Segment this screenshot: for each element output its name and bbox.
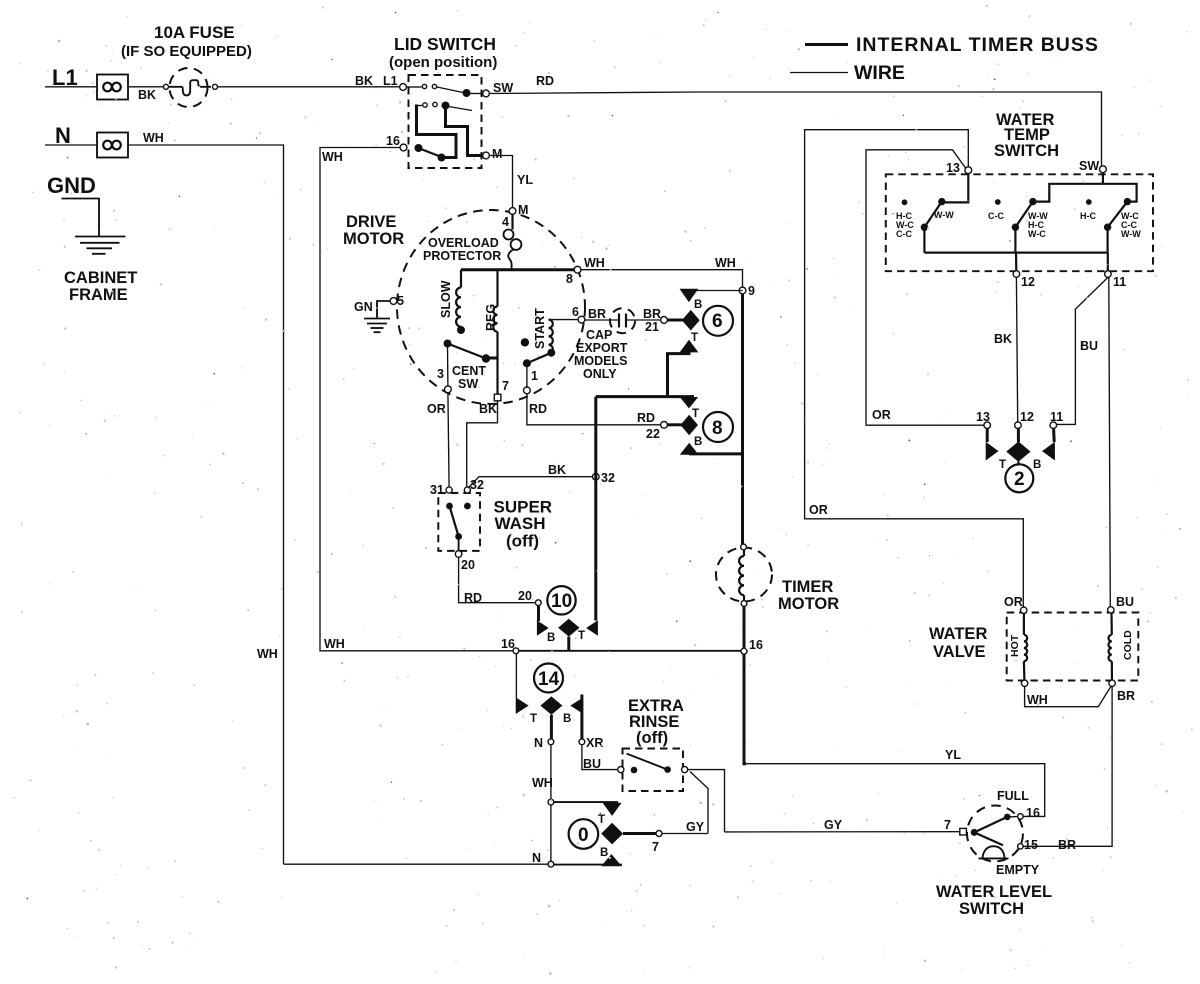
- connector P1 (L1): [97, 75, 128, 100]
- terminal 11 bottom: [1050, 422, 1057, 429]
- terminal 20: [455, 551, 462, 558]
- buss contact0 to terminal 7: [623, 832, 656, 835]
- terminal M drive motor: [509, 208, 516, 215]
- terminal 31: [446, 487, 452, 493]
- buss contact14 diamond to N: [550, 715, 553, 739]
- svg-text:8: 8: [566, 272, 573, 286]
- svg-text:WASH: WASH: [495, 514, 546, 533]
- svg-text:SW: SW: [458, 377, 478, 391]
- svg-text:20: 20: [461, 558, 475, 572]
- wire GY 7 to corner: [662, 833, 708, 835]
- wire N bottom run: [284, 863, 549, 865]
- wire BK 32 to net 32: [468, 477, 593, 488]
- terminal 16 water level: [1018, 814, 1024, 820]
- svg-text:B: B: [547, 632, 555, 644]
- wire net 16 horizontal: [519, 650, 742, 652]
- svg-text:(off): (off): [636, 729, 668, 747]
- wire OR water temp 13: [866, 150, 984, 425]
- wire junction to N bottom: [550, 805, 552, 861]
- svg-text:EXPORT: EXPORT: [576, 341, 628, 355]
- buss pivot3 to terminal 11: [1107, 253, 1109, 271]
- lid switch top row contacts: [407, 86, 422, 88]
- svg-text:HOT: HOT: [1009, 634, 1021, 657]
- svg-text:2: 2: [1014, 469, 1025, 490]
- svg-text:RD: RD: [637, 411, 655, 425]
- buss contact8 B to right bus: [689, 452, 743, 455]
- terminal 7: [494, 394, 501, 401]
- terminal SW lid switch: [483, 90, 490, 97]
- svg-text:6: 6: [572, 305, 579, 319]
- terminal 20 contact10: [535, 600, 541, 606]
- svg-text:BK: BK: [994, 332, 1012, 346]
- svg-text:B: B: [694, 436, 702, 448]
- legend internal timer buss: [805, 43, 848, 46]
- svg-text:WH: WH: [715, 256, 736, 270]
- junction terminal: [548, 799, 554, 805]
- svg-text:4: 4: [502, 215, 509, 229]
- wire junction to contact 0 T: [554, 801, 618, 803]
- lid switch middle row contacts: [417, 105, 423, 107]
- wire BK 12 down: [1016, 277, 1017, 422]
- svg-text:(open position): (open position): [389, 54, 497, 71]
- buss 22 to contact 8: [668, 423, 682, 426]
- svg-text:12: 12: [1021, 275, 1035, 289]
- lid switch bottom row blade: [415, 144, 423, 152]
- svg-text:WH: WH: [322, 150, 343, 164]
- wire YL buss to water level: [746, 764, 1044, 817]
- svg-text:7: 7: [652, 840, 659, 854]
- svg-text:INTERNAL TIMER BUSS: INTERNAL TIMER BUSS: [856, 34, 1099, 56]
- svg-text:XR: XR: [586, 736, 603, 750]
- svg-text:BR: BR: [588, 307, 606, 321]
- buss 13 into switch: [945, 174, 968, 203]
- svg-text:WATER LEVEL: WATER LEVEL: [936, 883, 1052, 901]
- terminal 9: [739, 287, 746, 294]
- buss net32 vertical: [594, 397, 597, 621]
- svg-text:EMPTY: EMPTY: [996, 863, 1040, 877]
- wire L1 to connector: [45, 86, 97, 88]
- buss horizontal to contact 8 T: [596, 395, 694, 398]
- internal buss bottom: [924, 252, 1108, 254]
- svg-text:DRIVE: DRIVE: [346, 213, 396, 231]
- svg-text:GND: GND: [47, 173, 96, 198]
- svg-text:M: M: [518, 203, 528, 217]
- terminal 7 water level: [960, 828, 967, 835]
- svg-text:11: 11: [1113, 275, 1126, 289]
- svg-text:MOTOR: MOTOR: [343, 230, 404, 248]
- svg-text:TIMER: TIMER: [782, 578, 833, 596]
- svg-text:5: 5: [397, 294, 404, 308]
- terminal 21: [661, 317, 668, 324]
- terminal 6: [578, 316, 585, 323]
- timer contact 14: [517, 698, 529, 714]
- buss down to YL corner: [744, 654, 746, 764]
- terminal 16 right: [741, 648, 747, 654]
- svg-text:BR: BR: [1117, 689, 1135, 703]
- wire WH N down to junction: [550, 745, 552, 800]
- svg-text:12: 12: [1020, 410, 1034, 424]
- svg-text:7: 7: [502, 379, 509, 393]
- svg-text:WH: WH: [584, 256, 605, 270]
- super wash blade: [446, 503, 453, 510]
- connector P2 (N): [97, 133, 128, 158]
- wire connector to fuse: [128, 86, 164, 88]
- timer contact 0: [603, 803, 622, 816]
- svg-text:GY: GY: [686, 820, 705, 834]
- svg-text:9: 9: [748, 284, 755, 298]
- svg-text:COLD: COLD: [1122, 630, 1134, 660]
- svg-text:T: T: [530, 713, 537, 725]
- terminal 13 bottom: [984, 422, 991, 429]
- svg-text:WH: WH: [532, 776, 553, 790]
- timer contact 2: [986, 428, 989, 442]
- svg-text:WH: WH: [143, 131, 164, 145]
- svg-text:FULL: FULL: [997, 789, 1029, 803]
- svg-text:W-C: W-C: [1028, 229, 1046, 239]
- svg-text:VALVE: VALVE: [933, 643, 986, 661]
- timer contact 6: [668, 319, 684, 322]
- wire OR water valve feed: [805, 130, 1024, 607]
- wire RD 20 to contact 10: [459, 557, 535, 602]
- svg-text:GY: GY: [824, 818, 843, 832]
- svg-text:PROTECTOR: PROTECTOR: [423, 249, 501, 263]
- svg-text:BK: BK: [355, 74, 373, 88]
- svg-text:OR: OR: [1004, 595, 1023, 609]
- svg-text:22: 22: [646, 427, 660, 441]
- buss section2 to SW: [1033, 184, 1137, 202]
- terminal 22: [661, 421, 668, 428]
- wire BU water valve feed: [1109, 277, 1111, 606]
- terminal 12 bottom: [1015, 422, 1022, 429]
- wire BR valve to water level 15: [1024, 687, 1113, 847]
- wire WH lid switch 16 to net 16: [320, 148, 514, 651]
- svg-text:BK: BK: [479, 402, 497, 416]
- svg-text:31: 31: [430, 483, 444, 497]
- svg-text:8: 8: [712, 418, 723, 439]
- svg-text:RD: RD: [536, 74, 554, 88]
- terminal 32 right: [593, 473, 600, 480]
- svg-text:ONLY: ONLY: [583, 367, 617, 381]
- terminal 32: [464, 487, 470, 493]
- svg-text:32: 32: [470, 478, 484, 492]
- svg-text:N: N: [534, 736, 543, 750]
- svg-text:16: 16: [749, 638, 763, 652]
- terminal N: [548, 739, 554, 745]
- timer contact 8: [680, 397, 698, 408]
- svg-text:BR: BR: [643, 307, 661, 321]
- svg-text:(IF SO EQUIPPED): (IF SO EQUIPPED): [121, 43, 252, 60]
- svg-text:YL: YL: [517, 173, 533, 187]
- svg-text:W-W: W-W: [934, 210, 954, 220]
- terminal 16 left: [513, 648, 519, 654]
- svg-text:WH: WH: [324, 637, 345, 651]
- wire WH 8 to bus corner: [581, 270, 743, 287]
- svg-text:16: 16: [386, 134, 400, 148]
- svg-text:WIRE: WIRE: [854, 62, 905, 84]
- svg-text:CAP: CAP: [586, 328, 612, 342]
- svg-text:B: B: [600, 847, 608, 859]
- wire GY to water level 7: [725, 831, 960, 833]
- svg-text:MODELS: MODELS: [574, 354, 627, 368]
- terminal 16 lid switch: [400, 144, 407, 151]
- svg-text:REG: REG: [484, 304, 498, 331]
- svg-text:RD: RD: [464, 591, 482, 605]
- svg-text:1: 1: [531, 369, 538, 383]
- svg-text:YL: YL: [945, 748, 961, 762]
- water level internals: [971, 829, 978, 836]
- buss pivot2 to terminal 12: [1015, 253, 1017, 271]
- svg-text:16: 16: [1026, 806, 1040, 820]
- contact section 2: [995, 199, 1001, 205]
- svg-text:N: N: [532, 851, 541, 865]
- svg-text:13: 13: [976, 410, 990, 424]
- terminal hot bottom: [1021, 680, 1027, 686]
- centrifugal switch CENT SW: [444, 340, 452, 348]
- svg-text:RD: RD: [529, 402, 547, 416]
- internal buss top of motor: [461, 268, 577, 271]
- svg-text:CABINET: CABINET: [64, 269, 137, 287]
- terminal BU valve: [1108, 607, 1114, 613]
- svg-text:11: 11: [1050, 410, 1063, 424]
- svg-text:H-C: H-C: [1080, 211, 1096, 221]
- svg-text:OVERLOAD: OVERLOAD: [428, 236, 499, 250]
- wire net16 down to contact 14: [515, 654, 517, 714]
- svg-text:OR: OR: [809, 503, 828, 517]
- svg-text:GN: GN: [354, 300, 373, 314]
- svg-text:CENT: CENT: [452, 364, 486, 378]
- svg-text:MOTOR: MOTOR: [778, 595, 839, 613]
- svg-text:M: M: [492, 147, 502, 161]
- terminal SW water temp: [1100, 166, 1107, 173]
- svg-text:WATER: WATER: [929, 625, 987, 643]
- svg-text:B: B: [1033, 459, 1041, 471]
- wire from START top to terminal 6: [549, 319, 578, 321]
- terminal 15 water level: [1018, 844, 1024, 850]
- svg-text:BK: BK: [548, 463, 566, 477]
- svg-text:C-C: C-C: [988, 211, 1004, 221]
- wire extra rinse diagonal to GY left: [690, 772, 708, 834]
- svg-text:3: 3: [437, 367, 444, 381]
- wire RD terminal 1 to 22: [527, 394, 661, 425]
- contact section 1: [902, 199, 908, 205]
- svg-text:LID SWITCH: LID SWITCH: [394, 34, 496, 54]
- legend wire: [790, 72, 848, 74]
- svg-text:10: 10: [551, 591, 572, 612]
- wire YL lid M to motor M: [490, 156, 513, 208]
- terminal 13 water temp: [965, 167, 972, 174]
- svg-text:32: 32: [601, 471, 615, 485]
- svg-text:SLOW: SLOW: [439, 280, 453, 318]
- svg-text:BU: BU: [583, 757, 601, 771]
- wire BU XR to extra rinse: [582, 745, 618, 770]
- svg-text:T: T: [692, 408, 699, 420]
- wire BU 11 to contact2: [1057, 277, 1108, 424]
- main timer buss right vertical: [741, 294, 744, 544]
- terminal N bottom: [548, 861, 554, 867]
- buss timer motor down to net 16: [743, 606, 746, 648]
- buss contact6 T down to net: [668, 352, 690, 397]
- terminal cold bottom: [1109, 680, 1115, 686]
- svg-text:21: 21: [645, 320, 659, 334]
- svg-text:14: 14: [538, 669, 560, 690]
- buss contact14 B to XR: [580, 695, 583, 739]
- terminal 8: [574, 266, 581, 273]
- svg-text:BK: BK: [138, 88, 156, 102]
- terminal OR valve: [1021, 607, 1027, 613]
- wire WH from N connector to left riser: [128, 145, 284, 864]
- svg-text:SW: SW: [1079, 159, 1099, 173]
- svg-text:N: N: [55, 123, 71, 148]
- lid switch internal buss: [417, 105, 457, 158]
- svg-text:16: 16: [501, 637, 515, 651]
- terminal L1 lid switch: [400, 84, 407, 91]
- svg-text:B: B: [563, 713, 571, 725]
- terminal 7: [656, 831, 662, 837]
- svg-text:T: T: [691, 332, 698, 344]
- wire OR terminal 3 to 31: [448, 393, 449, 487]
- terminal XR: [579, 739, 585, 745]
- svg-text:C-C: C-C: [896, 229, 912, 239]
- svg-text:OR: OR: [427, 402, 446, 416]
- svg-text:13: 13: [946, 161, 960, 175]
- terminal M lid switch: [483, 152, 490, 159]
- svg-text:10A FUSE: 10A FUSE: [154, 23, 235, 42]
- svg-text:SWITCH: SWITCH: [959, 900, 1024, 918]
- wire N to connector: [45, 144, 97, 146]
- svg-text:L1: L1: [383, 74, 398, 88]
- svg-text:T: T: [598, 814, 605, 826]
- svg-text:W-W: W-W: [1121, 229, 1141, 239]
- contact section 3: [1086, 199, 1092, 205]
- svg-text:BU: BU: [1080, 339, 1098, 353]
- start switch blade: [521, 338, 529, 346]
- wire BK fuse to lid switch L1: [218, 86, 400, 88]
- svg-text:(off): (off): [506, 532, 539, 551]
- svg-text:T: T: [578, 630, 585, 642]
- svg-text:BU: BU: [1116, 595, 1134, 609]
- wire extra rinse to GY corner: [688, 770, 725, 832]
- terminal 1: [524, 387, 531, 394]
- svg-text:SWITCH: SWITCH: [994, 142, 1059, 160]
- timer contact 10: [537, 605, 540, 621]
- svg-text:WH: WH: [257, 647, 278, 661]
- wire BK terminal 7 to 32: [467, 401, 498, 487]
- svg-text:START: START: [533, 308, 547, 349]
- svg-text:7: 7: [944, 818, 951, 832]
- wire WH valve jumper: [1025, 686, 1111, 706]
- svg-text:OR: OR: [872, 408, 891, 422]
- terminal 3: [445, 386, 452, 393]
- svg-text:15: 15: [1024, 838, 1038, 852]
- svg-text:0: 0: [578, 825, 589, 846]
- svg-text:B: B: [694, 299, 702, 311]
- wire RD lid SW to water temp SW: [490, 92, 1102, 166]
- svg-text:6: 6: [712, 311, 723, 332]
- svg-text:T: T: [999, 459, 1006, 471]
- svg-text:20: 20: [518, 589, 532, 603]
- wire contact6 B to terminal 9: [689, 290, 743, 292]
